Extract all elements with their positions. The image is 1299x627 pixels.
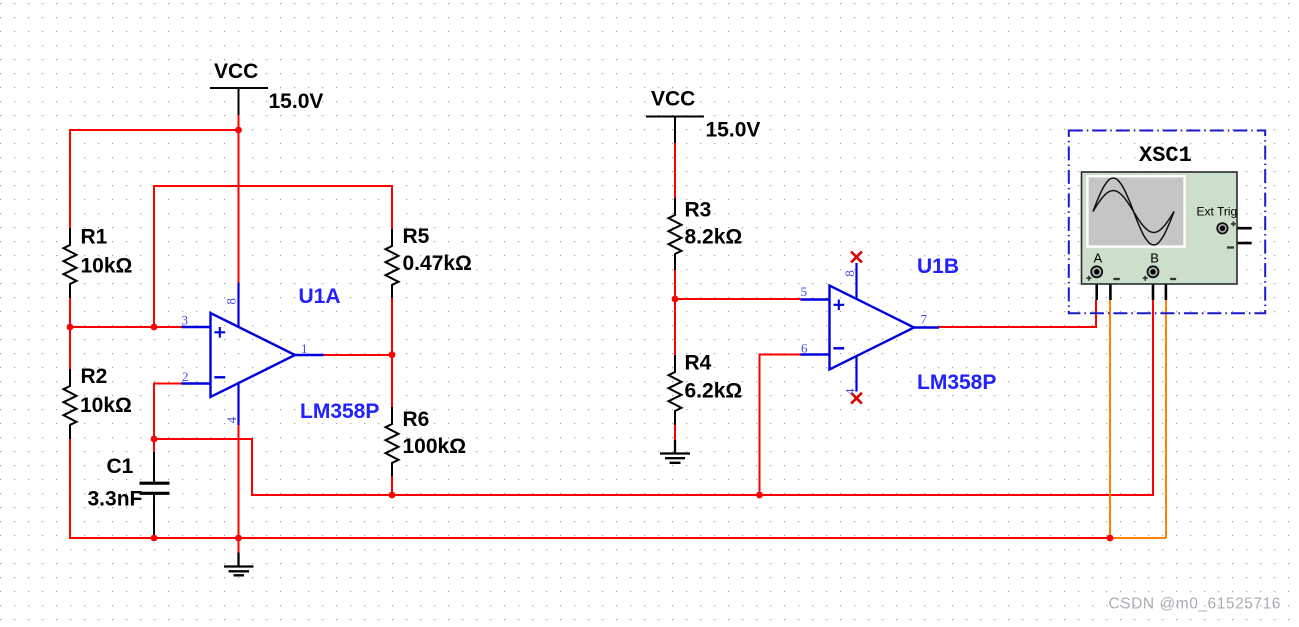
svg-text:15.0V: 15.0V [269, 90, 324, 113]
svg-text:R2: R2 [81, 365, 108, 388]
svg-text:VCC: VCC [651, 88, 695, 111]
svg-text:VCC: VCC [214, 60, 258, 83]
svg-text:A: A [1094, 251, 1103, 266]
svg-text:8: 8 [842, 270, 857, 277]
svg-text:R6: R6 [403, 408, 430, 431]
svg-text:10kΩ: 10kΩ [81, 254, 133, 277]
svg-text:CSDN @m0_61525716: CSDN @m0_61525716 [1109, 596, 1281, 613]
svg-text:8: 8 [224, 298, 239, 305]
svg-text:3: 3 [182, 313, 189, 328]
svg-text:U1B: U1B [917, 255, 959, 278]
svg-text:6: 6 [801, 341, 808, 356]
svg-text:C1: C1 [107, 455, 134, 478]
svg-text:4: 4 [842, 388, 857, 395]
svg-text:R5: R5 [403, 225, 430, 248]
svg-text:0.47kΩ: 0.47kΩ [403, 252, 472, 275]
svg-text:LM358P: LM358P [917, 371, 996, 394]
svg-text:3.3nF: 3.3nF [88, 488, 143, 511]
svg-text:7: 7 [921, 312, 928, 327]
svg-text:6.2kΩ: 6.2kΩ [685, 380, 743, 403]
svg-text:1: 1 [301, 341, 308, 356]
svg-text:Ext Trig: Ext Trig [1197, 204, 1238, 218]
svg-text:5: 5 [801, 284, 808, 299]
svg-text:100kΩ: 100kΩ [403, 435, 467, 458]
svg-text:LM358P: LM358P [300, 400, 379, 423]
svg-text:R3: R3 [685, 199, 712, 222]
svg-text:4: 4 [224, 416, 239, 423]
svg-text:10kΩ: 10kΩ [80, 394, 132, 417]
svg-text:B: B [1150, 251, 1159, 266]
svg-text:8.2kΩ: 8.2kΩ [685, 226, 743, 249]
svg-text:R1: R1 [81, 226, 108, 249]
svg-text:U1A: U1A [299, 285, 341, 308]
svg-text:R4: R4 [685, 352, 712, 375]
svg-text:15.0V: 15.0V [706, 119, 761, 142]
svg-text:XSC1: XSC1 [1139, 143, 1192, 168]
svg-text:2: 2 [182, 369, 189, 384]
